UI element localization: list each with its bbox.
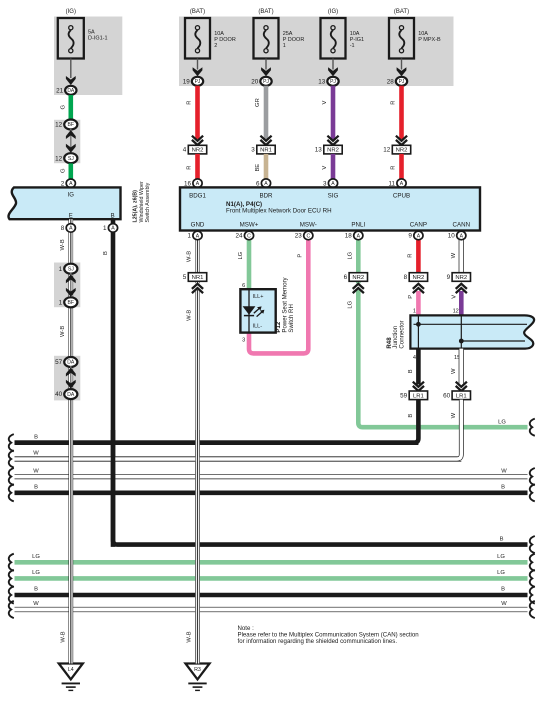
svg-text:8: 8 xyxy=(404,274,408,281)
svg-text:W: W xyxy=(33,601,39,607)
svg-text:57: 57 xyxy=(55,359,63,366)
svg-text:PJ: PJ xyxy=(399,79,405,85)
svg-text:(IG): (IG) xyxy=(328,9,338,15)
svg-text:NR2: NR2 xyxy=(192,148,204,154)
svg-text:3: 3 xyxy=(242,338,245,344)
junction arrows below 8 NR2 xyxy=(412,283,426,290)
svg-text:NR1: NR1 xyxy=(192,275,204,281)
wire W (LR1 to bus row 2) xyxy=(15,400,462,459)
connector 40 DA xyxy=(64,389,77,399)
wire W (R48 pin 15 to LR1) xyxy=(459,349,464,385)
pin 16 A (BDG1) xyxy=(193,179,202,188)
svg-text:10: 10 xyxy=(448,233,456,240)
svg-text:NR2: NR2 xyxy=(396,148,408,154)
svg-text:MSW-: MSW- xyxy=(300,221,317,228)
pin 11 A (CPUB) xyxy=(397,179,406,188)
svg-text:NR2: NR2 xyxy=(352,275,364,281)
svg-text:60: 60 xyxy=(443,392,451,399)
bus wire LG (row 7) xyxy=(15,576,528,581)
connector pair arrows SJ-BF xyxy=(70,273,72,297)
svg-text:G: G xyxy=(60,104,66,109)
connector 21 DA xyxy=(65,86,76,95)
arrow into connector 28 PJ xyxy=(397,67,407,76)
connector 59 LR1 xyxy=(409,391,427,400)
fuse block background (left) xyxy=(54,17,122,96)
svg-text:G: G xyxy=(60,168,66,173)
svg-text:DA: DA xyxy=(67,360,75,366)
wire B over buses (wiper B) xyxy=(111,430,116,547)
svg-text:BF: BF xyxy=(68,300,75,306)
svg-text:E: E xyxy=(69,213,73,219)
pin 23 C (MSW-) xyxy=(304,231,313,240)
svg-text:4: 4 xyxy=(413,355,416,361)
connector 8 NR2 xyxy=(409,273,427,282)
arrow into connector 20 PJ xyxy=(261,67,271,76)
svg-text:R: R xyxy=(390,166,396,170)
svg-text:-1: -1 xyxy=(350,43,355,49)
svg-text:W-B: W-B xyxy=(187,631,193,642)
connector 20 PJ xyxy=(260,77,271,86)
pin 8 A (wiper switch E) xyxy=(66,224,75,233)
pin 24 C (MSW+) xyxy=(244,231,253,240)
wire GR (BDR feed) xyxy=(264,86,269,139)
svg-text:W-B: W-B xyxy=(60,631,66,642)
wire G (fuse to BF) xyxy=(69,95,74,120)
wire W-B over buses (ECU GND) xyxy=(195,430,200,664)
front multiplex network door ECU RH N1(A) P4(C) xyxy=(180,187,480,230)
connector 13 PJ xyxy=(327,77,338,86)
svg-text:6: 6 xyxy=(344,274,348,281)
svg-text:B: B xyxy=(501,587,505,593)
svg-text:BDR: BDR xyxy=(259,193,273,200)
wire fuse to connector 13 PJ xyxy=(332,59,334,70)
svg-text:R3: R3 xyxy=(194,667,201,673)
fuse 5A D-IG1-1 (IG) xyxy=(58,18,84,59)
bus wire W (row 9) xyxy=(15,607,528,612)
svg-text:B: B xyxy=(408,369,414,373)
svg-text:1: 1 xyxy=(103,225,107,232)
wire B (R48 pin 4 to LR1) xyxy=(416,349,421,385)
pin 9 A (CANP) xyxy=(414,231,423,240)
wire LG (MSW+ to P12) xyxy=(247,239,252,289)
svg-text:B: B xyxy=(408,414,414,418)
svg-text:9: 9 xyxy=(408,233,412,240)
pin 3 A (SIG) xyxy=(328,179,337,188)
svg-text:8: 8 xyxy=(61,225,65,232)
fuse block background (main) xyxy=(179,17,454,87)
svg-text:IG: IG xyxy=(68,192,75,198)
junction arrows below 6 NR2 xyxy=(352,283,366,290)
svg-text:3: 3 xyxy=(251,147,255,154)
svg-text:B: B xyxy=(34,434,38,440)
svg-text:A: A xyxy=(111,226,115,232)
svg-text:SIG: SIG xyxy=(328,193,339,200)
svg-text:W: W xyxy=(33,451,39,457)
arrow into connector 21 DA xyxy=(66,76,76,85)
svg-text:2: 2 xyxy=(214,43,217,49)
connector 60 LR1 xyxy=(452,391,470,400)
svg-text:W-B: W-B xyxy=(187,310,193,321)
svg-text:LG: LG xyxy=(497,570,505,576)
wire B (wiper B to bus) xyxy=(113,219,528,544)
wire W-B over buses (wiper E) xyxy=(69,430,74,664)
connector 1 BF xyxy=(64,297,77,307)
svg-text:NR2: NR2 xyxy=(413,275,425,281)
svg-text:(BAT): (BAT) xyxy=(190,9,205,15)
svg-text:12: 12 xyxy=(55,155,63,162)
fuse 10A P DOOR 2 (BAT) xyxy=(185,18,210,59)
svg-text:LR1: LR1 xyxy=(456,393,467,399)
connector 19 PJ xyxy=(192,77,203,86)
junction arrows below 9 NR2 xyxy=(455,283,469,290)
wire V (NR2 to ECU) xyxy=(331,154,336,179)
svg-text:P: P xyxy=(298,254,304,258)
svg-text:DA: DA xyxy=(67,88,75,94)
connector 12 NR2 xyxy=(392,145,410,154)
fuse 10A P-IG1-1 (IG) xyxy=(321,18,346,59)
svg-text:CANP: CANP xyxy=(410,221,427,228)
svg-text:ILL-: ILL- xyxy=(253,324,263,330)
junction arrows above 60 LR1 xyxy=(455,385,469,392)
wire W-B (ECU GND to ground) xyxy=(195,239,200,663)
wire R (BDG1 feed) xyxy=(195,86,200,139)
svg-text:L25(A), z6(B): L25(A), z6(B) xyxy=(133,190,139,223)
wire V (SIG feed) xyxy=(331,86,336,139)
svg-text:9: 9 xyxy=(447,274,451,281)
svg-text:(BAT): (BAT) xyxy=(394,9,409,15)
svg-text:R: R xyxy=(390,101,396,105)
svg-text:C: C xyxy=(306,233,310,239)
svg-text:LG: LG xyxy=(32,554,40,560)
wire B (LR1 to bus row 1) xyxy=(15,400,419,443)
svg-text:Front Multiplex Network Door E: Front Multiplex Network Door ECU RH xyxy=(226,208,332,215)
pin 10 A (CANN) xyxy=(457,231,466,240)
connector 9 NR2 xyxy=(452,273,470,282)
svg-text:4: 4 xyxy=(183,147,187,154)
svg-text:Switch Assembly: Switch Assembly xyxy=(145,182,151,222)
svg-text:C: C xyxy=(247,233,251,239)
wire W-B (wiper E to ground) xyxy=(69,219,74,663)
bus wire B (row 5, from wiper switch B) xyxy=(530,536,535,553)
svg-text:A: A xyxy=(417,233,421,239)
svg-text:12: 12 xyxy=(453,308,459,314)
svg-text:(BAT): (BAT) xyxy=(258,9,273,15)
svg-text:BF: BF xyxy=(68,122,75,128)
svg-text:LG: LG xyxy=(348,300,354,308)
svg-text:DA: DA xyxy=(67,392,75,398)
LED symbol (illumination) xyxy=(243,306,256,315)
svg-text:W: W xyxy=(451,368,457,374)
svg-text:for information regarding the: for information regarding the shielded c… xyxy=(238,638,398,645)
connector 3 NR1 xyxy=(257,145,275,154)
bus wire LG (row 6) xyxy=(15,560,528,565)
svg-text:P MPX-B: P MPX-B xyxy=(418,37,441,43)
junction arrows below 5 NR1 xyxy=(191,283,205,290)
svg-text:NR2: NR2 xyxy=(327,148,339,154)
svg-text:(IG): (IG) xyxy=(66,9,76,15)
ground R3 xyxy=(186,664,210,680)
pin 6 A (BDR) xyxy=(261,179,270,188)
pin 1 A (GND) xyxy=(193,231,202,240)
svg-text:P DOOR: P DOOR xyxy=(283,37,305,43)
svg-text:D-IG1-1: D-IG1-1 xyxy=(88,35,108,41)
svg-text:B: B xyxy=(111,213,115,219)
svg-text:LG: LG xyxy=(498,419,506,425)
connector 28 PJ xyxy=(396,77,407,86)
wire P (NR2 to R48 pin 1) xyxy=(416,291,421,315)
svg-text:A: A xyxy=(196,233,200,239)
wire LG (PNLI to bus) xyxy=(358,239,527,427)
junction arrows above NR1 xyxy=(259,139,273,146)
arrow into connector 13 PJ xyxy=(328,67,338,76)
svg-text:1: 1 xyxy=(283,43,286,49)
bus wire B (row 8) xyxy=(15,593,528,598)
junction connector R48 xyxy=(410,315,534,348)
svg-text:LG: LG xyxy=(348,251,354,259)
junction arrows above NR2 xyxy=(191,139,205,146)
svg-text:P: P xyxy=(408,295,414,299)
wire R (NR2 to ECU) xyxy=(195,154,200,179)
svg-text:A: A xyxy=(331,181,335,187)
wire fuse to connector 28 PJ xyxy=(401,59,403,70)
bus wire B (row 4) xyxy=(15,490,528,495)
svg-text:R: R xyxy=(186,101,192,105)
svg-text:28: 28 xyxy=(387,78,395,85)
svg-text:12: 12 xyxy=(383,147,391,154)
svg-text:L4: L4 xyxy=(68,667,74,673)
junction arrows above NR2 xyxy=(395,139,409,146)
svg-text:NR1: NR1 xyxy=(260,148,272,154)
connector 1 SJ xyxy=(64,264,77,274)
svg-text:18: 18 xyxy=(345,233,353,240)
svg-text:24: 24 xyxy=(235,233,243,240)
svg-text:23: 23 xyxy=(295,233,303,240)
svg-text:CPUB: CPUB xyxy=(393,193,410,200)
svg-text:W-B: W-B xyxy=(187,251,193,262)
svg-text:A: A xyxy=(264,181,268,187)
svg-text:59: 59 xyxy=(400,392,408,399)
svg-text:Connector: Connector xyxy=(398,320,405,348)
svg-text:BE: BE xyxy=(255,164,261,172)
svg-text:LG: LG xyxy=(497,554,505,560)
svg-text:Switch RH: Switch RH xyxy=(288,304,295,332)
connector 5 NR1 xyxy=(188,273,206,282)
svg-text:13: 13 xyxy=(318,78,326,85)
windshield wiper switch assembly L25(A) z6(B) xyxy=(8,187,120,219)
svg-text:W: W xyxy=(501,468,507,474)
connector 57 DA xyxy=(64,357,77,367)
svg-text:P DOOR: P DOOR xyxy=(214,37,236,43)
svg-text:1: 1 xyxy=(413,308,416,314)
bus wire B (row 1) xyxy=(15,440,419,445)
wire fuse to connector 20 PJ xyxy=(265,59,267,70)
svg-text:1: 1 xyxy=(59,299,63,306)
bus wire W (row 2) xyxy=(15,456,462,461)
connector pair background SJ/BF xyxy=(54,263,80,308)
svg-text:SJ: SJ xyxy=(68,156,74,162)
bus wire W (row 3) xyxy=(15,474,528,479)
svg-text:5: 5 xyxy=(183,274,187,281)
connector 6 NR2 xyxy=(349,273,367,282)
svg-text:PJ: PJ xyxy=(330,79,336,85)
fuse 10A P MPX-B (BAT) xyxy=(389,18,414,59)
junction arrows above NR2 xyxy=(326,139,340,146)
svg-text:PJ: PJ xyxy=(263,79,269,85)
pin 2 A (wiper switch IG) xyxy=(66,179,75,188)
svg-text:B: B xyxy=(500,536,504,542)
svg-text:B: B xyxy=(34,485,38,491)
svg-text:R: R xyxy=(408,254,414,258)
fuse 25A P DOOR 1 (BAT) xyxy=(254,18,279,59)
svg-text:SJ: SJ xyxy=(68,266,74,272)
ground L4 xyxy=(59,664,83,680)
svg-text:LG: LG xyxy=(238,251,244,259)
wire V (NR2 to R48 pin 12) xyxy=(459,291,464,315)
svg-text:1: 1 xyxy=(59,266,63,273)
connector 4 NR2 xyxy=(188,145,206,154)
svg-text:GND: GND xyxy=(191,221,205,228)
svg-text:Windshield Wiper: Windshield Wiper xyxy=(139,181,145,222)
svg-text:W: W xyxy=(451,252,457,258)
pin 1 A (wiper switch B) xyxy=(108,224,117,233)
svg-text:19: 19 xyxy=(183,78,191,85)
svg-text:V: V xyxy=(322,101,328,105)
svg-text:PNLI: PNLI xyxy=(351,221,365,228)
svg-text:W: W xyxy=(33,468,39,474)
wire R (CANP) xyxy=(416,239,421,272)
svg-text:ILL+: ILL+ xyxy=(253,294,264,300)
svg-text:B: B xyxy=(103,251,109,255)
svg-text:GR: GR xyxy=(255,98,261,107)
svg-text:W-B: W-B xyxy=(60,239,66,250)
wire R (NR2 to ECU) xyxy=(399,154,404,179)
wire BE (NR1 to ECU) xyxy=(264,154,269,179)
svg-text:6: 6 xyxy=(242,283,245,289)
svg-text:A: A xyxy=(357,233,361,239)
svg-text:MSW+: MSW+ xyxy=(240,221,259,228)
svg-text:21: 21 xyxy=(56,87,64,94)
power seat memory switch P12 xyxy=(240,289,275,332)
arrow into connector 19 PJ xyxy=(193,67,203,76)
connector 12 SJ xyxy=(64,153,77,163)
svg-text:40: 40 xyxy=(55,391,63,398)
svg-text:A: A xyxy=(69,226,73,232)
svg-text:1: 1 xyxy=(187,233,191,240)
svg-text:20: 20 xyxy=(251,78,259,85)
wire P (P12 to MSW-) xyxy=(249,239,308,353)
wire fuse to connector 19 PJ xyxy=(197,59,199,70)
svg-text:W: W xyxy=(451,412,457,418)
svg-text:BDG1: BDG1 xyxy=(189,193,206,200)
svg-text:W: W xyxy=(501,601,507,607)
svg-text:W-B: W-B xyxy=(60,326,66,337)
svg-text:LG: LG xyxy=(32,570,40,576)
svg-text:NR2: NR2 xyxy=(455,275,467,281)
wire R (CPUB feed) xyxy=(399,86,404,139)
connector 13 NR2 xyxy=(324,145,342,154)
connector pair background BF/SJ xyxy=(54,120,80,163)
junction arrows above 59 LR1 xyxy=(412,385,426,392)
svg-text:A: A xyxy=(196,181,200,187)
svg-text:R: R xyxy=(186,166,192,170)
svg-text:12: 12 xyxy=(55,122,63,129)
svg-text:13: 13 xyxy=(315,147,323,154)
connector 12 BF xyxy=(64,120,77,130)
svg-text:B: B xyxy=(34,587,38,593)
wire G (SJ to wiper switch) xyxy=(69,163,74,179)
pin 18 A (PNLI) xyxy=(354,231,363,240)
svg-text:PJ: PJ xyxy=(195,79,201,85)
connector pair background DA/DA xyxy=(54,356,80,401)
svg-text:V: V xyxy=(451,295,457,299)
svg-text:A: A xyxy=(460,233,464,239)
connector pair arrows BF-SJ xyxy=(70,129,72,153)
svg-text:LR1: LR1 xyxy=(413,393,424,399)
svg-text:A: A xyxy=(400,181,404,187)
wire W (CANN) xyxy=(459,239,464,272)
svg-text:CANN: CANN xyxy=(453,221,471,228)
svg-text:B: B xyxy=(501,485,505,491)
connector pair arrows DA-DA xyxy=(70,366,72,390)
svg-text:V: V xyxy=(322,166,328,170)
wire fuse to connector DA xyxy=(70,59,72,79)
